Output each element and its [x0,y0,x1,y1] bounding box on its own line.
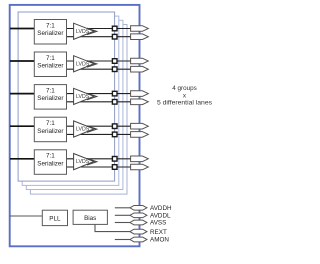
svg-text:4 groups: 4 groups [172,85,197,92]
svg-text:Serializer: Serializer [37,160,63,167]
chip boundary [10,5,140,246]
wire: input to serializer 4 [10,125,34,127]
wire: Bias to REXT pin [95,224,130,231]
group sheet 3 [26,20,123,189]
wire: lane 4 positive output [67,125,131,127]
Bias block [73,210,107,224]
pin REXT [130,229,167,236]
serializer block 3 (7:1 Serializer) [34,85,66,110]
wire: lane 2 positive output [67,60,131,62]
wire: AVDDH stub [115,207,130,209]
wire: lane 1 negative output [67,36,131,38]
wire: AVSS stub [115,222,130,224]
svg-text:5 differential lanes: 5 differential lanes [157,100,213,107]
pad: lane 3 negative output arrow [131,99,149,105]
pad: lane 1 negative output arrow [131,34,149,40]
node: lane 2 negative boundary pin [112,67,117,72]
svg-text:PLL: PLL [49,215,61,222]
wire: lane 3 positive output [67,93,131,95]
wire: lane 5 negative output [67,166,131,168]
wire: input to serializer 3 [10,93,34,95]
node: lane 1 negative boundary pin [112,34,117,39]
svg-text:Serializer: Serializer [37,30,63,37]
svg-text:Bias: Bias [84,215,96,222]
node: lane 2 positive boundary pin [112,59,117,64]
serializer block 1 (7:1 Serializer) [34,20,66,45]
wire: lane 5 positive output [67,158,131,160]
node: lane 4 negative boundary pin [112,132,117,137]
group sheet 1 (front) [18,12,115,181]
group sheet 2 [22,16,119,185]
LVDS driver 3 [74,88,97,104]
pad: lane 3 positive output arrow [131,91,149,97]
LVDS driver 5 [74,154,97,170]
wire: lane 4 negative output [67,133,131,135]
wire: input to serializer 5 [10,158,34,160]
node: lane 5 positive boundary pin [112,157,117,162]
svg-text:7:1: 7:1 [46,153,55,160]
LVDS driver 2 [74,56,97,72]
LVDS driver 1 [74,23,97,39]
pad: lane 4 negative output arrow [131,132,149,138]
wire: PLL reference input [10,215,42,217]
svg-text:AVDDH: AVDDH [150,205,172,212]
svg-text:7:1: 7:1 [46,55,55,62]
PLL block [42,210,67,225]
node: lane 1 positive boundary pin [112,26,117,31]
pad: lane 1 positive output arrow [131,26,149,32]
node: lane 4 positive boundary pin [112,124,117,129]
wire: input to serializer 1 [10,28,34,30]
svg-text:AVSS: AVSS [150,220,166,227]
svg-text:AVDDL: AVDDL [150,213,171,220]
group sheet 4 [30,25,127,195]
serializer block 5 (7:1 Serializer) [34,150,66,175]
serializer block 2 (7:1 Serializer) [34,52,66,77]
LVDS driver 4 [74,121,97,137]
wire: AVDDL stub [115,214,130,216]
pad: lane 5 negative output arrow [131,164,149,170]
pad: lane 2 positive output arrow [131,58,149,64]
wire: lane 2 negative output [67,68,131,70]
pad: lane 2 negative output arrow [131,66,149,72]
wire: lane 1 positive output [67,28,131,30]
wire: input to serializer 2 [10,60,34,62]
svg-text:7:1: 7:1 [46,22,55,29]
pin AVDDH [130,205,172,212]
wire: AMON stub [115,239,130,241]
wire: lane 3 negative output [67,101,131,103]
svg-text:7:1: 7:1 [46,120,55,127]
node: lane 3 negative boundary pin [112,100,117,105]
svg-text:AMON: AMON [150,237,169,244]
pin AVSS [130,220,166,227]
annotation: 4 groups x 5 differential lanes [157,85,213,107]
serializer block 4 (7:1 Serializer) [34,117,66,142]
pad: lane 4 positive output arrow [131,123,149,129]
svg-text:7:1: 7:1 [46,87,55,94]
pad: lane 5 positive output arrow [131,156,149,162]
node: lane 3 positive boundary pin [112,91,117,96]
pin AMON [130,237,169,244]
svg-text:Serializer: Serializer [37,63,63,70]
node: lane 5 negative boundary pin [112,165,117,170]
svg-text:Serializer: Serializer [37,95,63,102]
svg-text:Serializer: Serializer [37,128,63,135]
pin AVDDL [130,213,171,220]
svg-text:REXT: REXT [150,229,167,236]
